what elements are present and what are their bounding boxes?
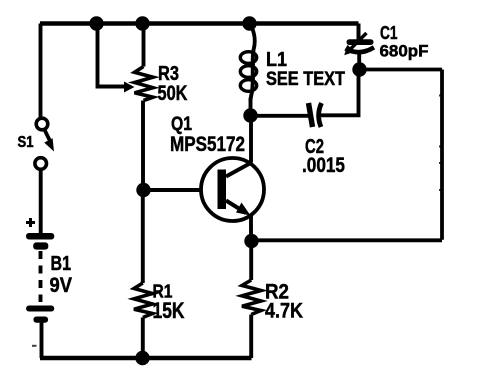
svg-text:SEE TEXT: SEE TEXT <box>266 69 345 90</box>
svg-text:9V: 9V <box>50 274 73 297</box>
capacitor C1 (variable) <box>344 33 374 64</box>
wire R3 bottom to base node <box>141 101 145 191</box>
junction dot wiper tap <box>89 16 103 30</box>
wire base node to R1 top <box>141 190 145 283</box>
svg-text:L1: L1 <box>266 49 287 71</box>
svg-text:50K: 50K <box>158 82 188 105</box>
battery B1 <box>26 233 54 323</box>
capacitor C2 <box>309 103 322 127</box>
svg-text:15K: 15K <box>153 298 185 323</box>
resistor R2 <box>242 280 261 315</box>
svg-text:MPS5172: MPS5172 <box>170 132 245 156</box>
wire emitter <box>249 216 253 242</box>
junction dot R3 top <box>135 16 149 30</box>
junction dot emitter node <box>244 234 258 248</box>
svg-text:C1: C1 <box>380 22 398 43</box>
wire emitter node to feedback <box>252 238 443 242</box>
wire battery to bottom rail <box>40 322 44 358</box>
wire L1 bottom lead <box>249 98 253 116</box>
svg-text:680pF: 680pF <box>380 43 429 61</box>
svg-text:B1: B1 <box>51 253 72 275</box>
wire feedback right <box>440 70 444 240</box>
junction dot L1 top <box>242 16 256 30</box>
wire R1 bottom lead <box>141 318 145 359</box>
wire R3 top lead <box>142 24 146 67</box>
junction dot C1 bottom node <box>352 62 366 76</box>
junction dot base node <box>136 183 150 197</box>
wire feedback top <box>360 68 443 72</box>
wire R2 bottom lead <box>249 315 253 359</box>
junction dot collector node <box>243 108 257 122</box>
wire collector <box>249 116 253 163</box>
wire bottom rail <box>40 356 252 360</box>
transistor Q1 <box>201 158 264 221</box>
svg-text:4.7K: 4.7K <box>265 300 303 323</box>
scan speckle on feedback wire <box>439 96 441 191</box>
svg-text:S1: S1 <box>18 134 34 151</box>
wire wiper arm <box>98 24 125 87</box>
wire left branch upper <box>39 24 43 119</box>
wire base <box>144 188 202 192</box>
wire switch to battery <box>39 170 43 234</box>
battery plus sign <box>26 218 35 227</box>
stray scan mark <box>32 345 37 347</box>
resistor R1 <box>134 283 153 318</box>
svg-text:.0015: .0015 <box>302 154 345 177</box>
switch S1 <box>35 118 54 169</box>
wiper arrow <box>124 82 135 93</box>
wire top rail <box>40 21 359 25</box>
junction dot R1 bottom <box>135 351 149 365</box>
wire emitter node to R2 <box>249 241 253 280</box>
wire C2 to C1 bottom node <box>321 70 359 116</box>
wire C1 top lead <box>357 24 361 41</box>
wire collector node to C2 <box>251 114 309 118</box>
potentiometer R3 <box>135 67 154 101</box>
inductor L1 <box>240 24 256 102</box>
